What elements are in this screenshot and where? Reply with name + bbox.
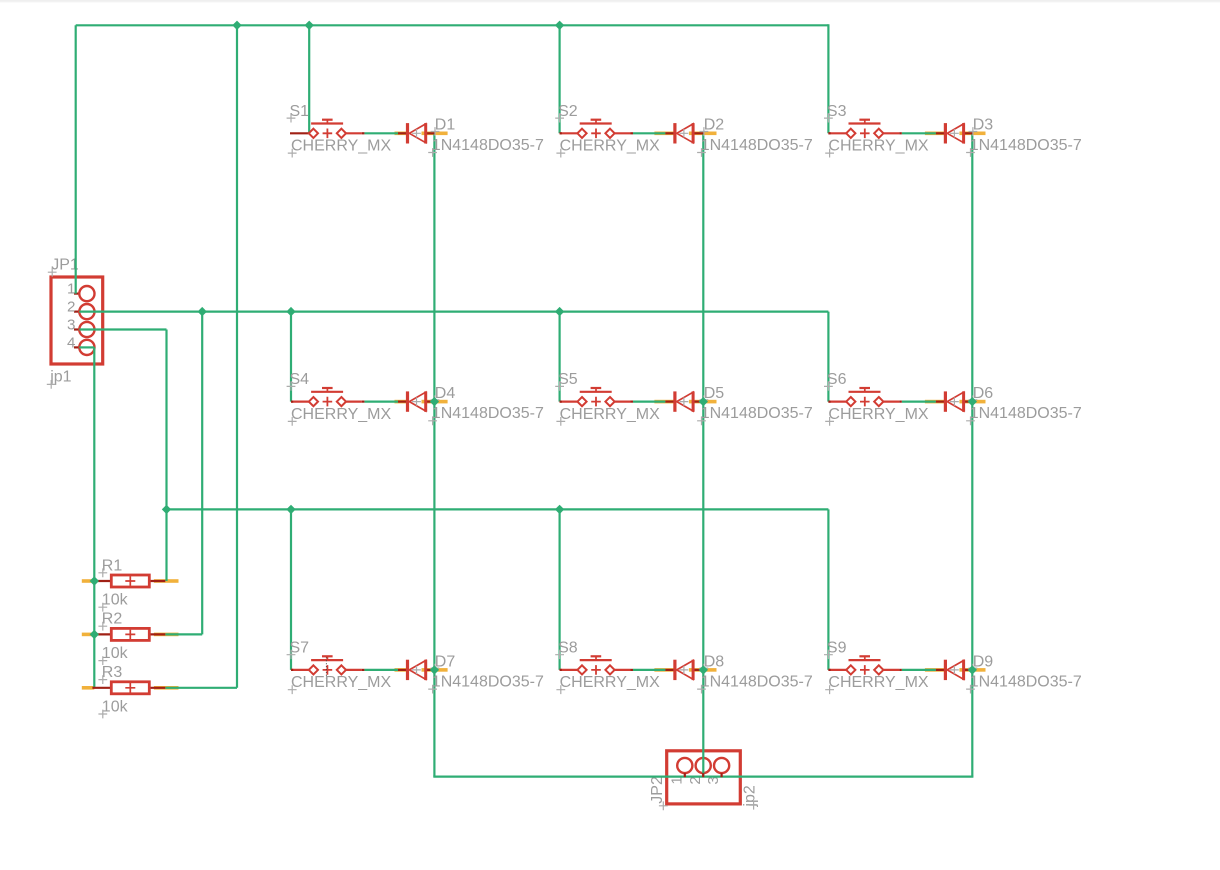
svg-text:CHERRY_MX: CHERRY_MX (828, 406, 929, 423)
contact diamond right (337, 397, 346, 406)
svg-text:jp1: jp1 (49, 369, 71, 386)
diode D9 (1N4148DO35-7) (936, 653, 1082, 693)
svg-text:1N4148DO35-7: 1N4148DO35-7 (701, 137, 813, 154)
cathode bar (406, 391, 409, 411)
wire diode column 3 (971, 133, 973, 776)
switch origin cross (591, 129, 601, 139)
cathode bar (944, 391, 947, 411)
contact diamond left (309, 397, 318, 406)
diode D4 pin stubs (yellow) (395, 400, 408, 404)
resistor R3 (10k) (92, 664, 165, 718)
actuator bar (580, 391, 612, 393)
contact diamond right (874, 129, 883, 138)
svg-text:1N4148DO35-7: 1N4148DO35-7 (432, 137, 544, 154)
junction row3 / S7 (286, 505, 295, 514)
junction R1 left (90, 576, 99, 585)
contact diamond right (874, 665, 883, 674)
cathode bar (673, 123, 676, 143)
wire row3 corner drop to S9 (827, 509, 829, 670)
wire R3 riser (236, 25, 238, 688)
svg-text:10k: 10k (102, 645, 129, 662)
pin 1 stub (828, 401, 846, 403)
anode triangle (677, 392, 693, 411)
diode origin cross (950, 397, 959, 405)
diode origin cross (950, 666, 959, 674)
resistor R1 (10k) (92, 557, 165, 611)
actuator bar (580, 659, 612, 661)
diode D5 pin stubs (yellow) (654, 400, 675, 404)
plunger tee (859, 119, 870, 121)
cathode pin overlay (426, 132, 436, 134)
svg-text:1N4148DO35-7: 1N4148DO35-7 (970, 405, 1082, 422)
cathode pin overlay (964, 132, 974, 134)
pin 1 overlay (92, 633, 111, 635)
JP1 pin 2 circle (79, 304, 94, 319)
anode triangle (677, 661, 693, 680)
wire R2 horizontal (165, 633, 202, 635)
resistor R2 (10k) (92, 611, 165, 665)
svg-text:S4: S4 (290, 371, 310, 388)
wire top bus horizontal (76, 24, 829, 26)
svg-text:S7: S7 (290, 639, 310, 656)
anode triangle (409, 661, 425, 680)
switch origin cross (860, 129, 870, 139)
svg-text:3: 3 (67, 317, 75, 334)
diode D6 pin stubs (yellow) (925, 400, 946, 404)
diode D7 (1N4148DO35-7) (398, 653, 544, 693)
cathode pin overlay (964, 401, 974, 403)
wire JP1 pin3 riser down (165, 330, 167, 510)
anode triangle (409, 392, 425, 411)
actuator bar (311, 122, 343, 124)
junction top bus / S1 (305, 21, 314, 30)
switch S3 (CHERRY_MX) (824, 103, 929, 158)
anode pin overlay (936, 669, 945, 671)
cathode pin overlay (426, 401, 436, 403)
plunger tee (591, 119, 602, 121)
switch origin cross (323, 665, 333, 675)
svg-text:4: 4 (67, 334, 75, 351)
cathode pin overlay (693, 669, 704, 671)
contact diamond right (337, 129, 346, 138)
svg-text:R2: R2 (102, 611, 123, 628)
cathode bar (673, 660, 676, 680)
wire S5 drop (558, 312, 560, 402)
diode origin cross (412, 666, 421, 674)
JP1 pin 1 stub (74, 293, 79, 295)
anode pin overlay (936, 132, 945, 134)
svg-text:1N4148DO35-7: 1N4148DO35-7 (701, 405, 813, 422)
switch origin cross (860, 397, 870, 407)
contact diamond left (309, 129, 318, 138)
cathode bar (944, 123, 947, 143)
junction row3 / S8 (555, 505, 564, 514)
anode triangle (947, 124, 963, 143)
diode D1 (1N4148DO35-7) (398, 117, 544, 157)
wire R1 riser (165, 509, 167, 581)
pin 1 overlay (92, 580, 111, 582)
switch origin cross (323, 129, 333, 139)
wire bottom bus to JP2 (433, 775, 973, 777)
wire S3-D3 link (902, 132, 936, 134)
pin 1 stub (291, 669, 309, 671)
actuator bar (311, 659, 343, 661)
pin 2 stub (883, 401, 899, 403)
JP1 pin 1 circle (79, 286, 94, 301)
contact diamond right (605, 397, 614, 406)
JP2 pin 3 circle (714, 758, 729, 773)
wire S5-D5 link (633, 401, 665, 403)
JP1 pin 4 circle (79, 340, 94, 355)
JP2 body (667, 751, 741, 804)
svg-text:CHERRY_MX: CHERRY_MX (560, 674, 661, 691)
junction D5 output (699, 397, 708, 406)
JP2 pin 1 circle (677, 758, 692, 773)
plunger tee (322, 655, 333, 657)
plunger tee (322, 387, 333, 389)
JP1 pin 4 stub (74, 346, 79, 348)
diode origin cross (680, 129, 689, 137)
pin 1 stub (560, 132, 578, 134)
resistor origin cross (125, 576, 135, 586)
JP2 pin stubs (685, 773, 722, 777)
cathode pin overlay (693, 401, 704, 403)
pin 1 stub (560, 401, 578, 403)
switch origin cross (591, 397, 601, 407)
contact diamond left (846, 397, 855, 406)
svg-text:S6: S6 (827, 371, 847, 388)
diode D8 (1N4148DO35-7) (665, 653, 812, 693)
anode pin overlay (665, 132, 674, 134)
wire R3 horizontal (165, 687, 237, 689)
svg-text:1: 1 (67, 281, 75, 298)
anode triangle (947, 392, 963, 411)
pin 1 stub (560, 669, 578, 671)
junction row2 / S4 (286, 307, 295, 316)
pin 2 stub (614, 132, 630, 134)
anode pin overlay (398, 401, 407, 403)
junction D6 output (968, 397, 977, 406)
anode triangle (947, 661, 963, 680)
wire JP1 pin1 riser (75, 25, 77, 293)
junction R2 left (90, 630, 99, 639)
wire S6-D6 link (902, 401, 936, 403)
cathode pin overlay (964, 669, 974, 671)
junction row2 / R2 (198, 307, 207, 316)
actuator dotted link (325, 657, 327, 680)
wire top bus corner drop to S3 (827, 24, 829, 133)
plunger tee (591, 387, 602, 389)
diode D7 pin stubs (yellow) (395, 668, 408, 672)
pin 2 stub (346, 669, 362, 671)
svg-text:CHERRY_MX: CHERRY_MX (291, 406, 392, 423)
diode D8 pin stubs (yellow) (654, 668, 675, 672)
wire S4-D4 link (364, 401, 398, 403)
diode D2 (1N4148DO35-7) (665, 117, 812, 157)
switch S9 (CHERRY_MX) (824, 639, 929, 694)
junction D8 output (699, 665, 708, 674)
switch origin cross (860, 665, 870, 675)
junction top bus / S2 (555, 21, 564, 30)
svg-text:1N4148DO35-7: 1N4148DO35-7 (432, 405, 544, 422)
svg-text:jp2: jp2 (742, 785, 759, 807)
pin 2 stub (614, 669, 630, 671)
diode D3 pin stubs (yellow) (925, 132, 946, 136)
pin 2 stub (614, 401, 630, 403)
wire row2 corner drop to S6 (827, 312, 829, 402)
switch S8 (CHERRY_MX) (555, 639, 660, 694)
actuator bar (311, 391, 343, 393)
plunger tee (322, 119, 333, 121)
resistor R1 pin stubs (yellow) (82, 579, 95, 583)
wire S1-D1 link (364, 132, 398, 134)
wire S8 drop (558, 509, 560, 670)
svg-text:CHERRY_MX: CHERRY_MX (291, 674, 392, 691)
svg-text:10k: 10k (102, 592, 129, 609)
switch S6 (CHERRY_MX) (824, 371, 929, 426)
contact diamond right (874, 397, 883, 406)
diode D3 (1N4148DO35-7) (936, 117, 1082, 157)
anode triangle (409, 124, 425, 143)
diode origin cross (412, 397, 421, 405)
switch S2 (CHERRY_MX) (555, 103, 660, 158)
switch S4 (CHERRY_MX) (287, 371, 392, 426)
junction D7 output (430, 665, 439, 674)
cathode bar (406, 660, 409, 680)
wire S7 drop (290, 509, 292, 670)
diode D2 pin stubs (yellow) (654, 132, 675, 136)
anode pin overlay (665, 669, 674, 671)
svg-text:JP2: JP2 (649, 776, 666, 804)
pin 2 stub (346, 132, 362, 134)
svg-text:S1: S1 (290, 103, 310, 120)
svg-text:CHERRY_MX: CHERRY_MX (291, 138, 392, 155)
pin 1 overlay (92, 687, 111, 689)
anode triangle (677, 124, 693, 143)
cathode bar (406, 123, 409, 143)
actuator bar (849, 391, 881, 393)
wire row3 bus horizontal (167, 508, 829, 510)
diode origin cross (680, 397, 689, 405)
wire diode column 1 (433, 133, 435, 776)
resistor body (111, 628, 149, 640)
svg-text:R3: R3 (102, 664, 123, 681)
pin 2 overlay (149, 687, 165, 689)
JP1 pin 3 circle (79, 322, 94, 337)
JP2 pin 2 circle (696, 758, 711, 773)
pin 1 stub (290, 132, 309, 134)
svg-text:CHERRY_MX: CHERRY_MX (828, 138, 929, 155)
anode pin overlay (398, 669, 407, 671)
svg-text:CHERRY_MX: CHERRY_MX (560, 138, 661, 155)
JP1 body (51, 277, 103, 364)
switch S1 (CHERRY_MX) (287, 103, 392, 158)
cathode bar (944, 660, 947, 680)
cathode bar (673, 391, 676, 411)
plunger tee (859, 387, 870, 389)
svg-text:S8: S8 (558, 639, 578, 656)
svg-text:S3: S3 (827, 103, 847, 120)
cathode pin overlay (426, 669, 436, 671)
wire JP1 pin4 horizontal (79, 346, 94, 348)
svg-text:S9: S9 (827, 639, 847, 656)
switch S7 (CHERRY_MX) (287, 639, 392, 694)
pin 2 stub (346, 401, 362, 403)
wire JP1 pin3 horizontal (79, 328, 166, 330)
JP1 pin 3 stub (74, 328, 79, 330)
diode origin cross (950, 129, 959, 137)
svg-text:1N4148DO35-7: 1N4148DO35-7 (970, 673, 1082, 690)
plunger tee (859, 655, 870, 657)
pin 2 stub (883, 132, 899, 134)
diode D1 pin stubs (yellow) (395, 132, 408, 136)
diode D4 (1N4148DO35-7) (398, 385, 544, 425)
pin 1 stub (828, 132, 846, 134)
contact diamond right (605, 129, 614, 138)
top border strip (0, 0, 1220, 2)
switch origin cross (591, 665, 601, 675)
wire S8-D8 link (633, 669, 665, 671)
diode D5 (1N4148DO35-7) (665, 385, 812, 425)
resistor R2 pin stubs (yellow) (82, 633, 95, 637)
wire JP1 pin4 drop to resistors (93, 347, 95, 687)
switch origin cross (323, 397, 333, 407)
junction D9 output (968, 665, 977, 674)
junction D4 output (430, 397, 439, 406)
contact diamond left (309, 665, 318, 674)
connector JP1 (47, 256, 103, 388)
anode pin overlay (936, 401, 945, 403)
resistor origin cross (125, 630, 135, 640)
diode origin cross (680, 666, 689, 674)
wire S7-D7 link (364, 669, 398, 671)
wire S1 drop (308, 25, 310, 133)
resistor origin cross (125, 683, 135, 693)
plunger tee (591, 655, 602, 657)
wire S9-D9 link (902, 669, 936, 671)
svg-text:1N4148DO35-7: 1N4148DO35-7 (701, 673, 813, 690)
junction row2 / S5 (555, 307, 564, 316)
connector JP2 (649, 751, 759, 810)
JP1 pin 2 stub (74, 311, 79, 313)
wire row2 bus horizontal (79, 311, 828, 313)
anode pin overlay (665, 401, 674, 403)
resistor body (111, 575, 149, 587)
junction row3 / R1 (162, 505, 171, 514)
pin 2 overlay (149, 580, 165, 582)
svg-text:CHERRY_MX: CHERRY_MX (828, 674, 929, 691)
contact diamond left (577, 129, 586, 138)
contact diamond left (846, 665, 855, 674)
diode D6 (1N4148DO35-7) (936, 385, 1082, 425)
anode pin overlay (398, 132, 407, 134)
pin 2 overlay (149, 633, 165, 635)
contact diamond left (577, 397, 586, 406)
svg-text:2: 2 (67, 299, 75, 316)
wire S4 drop (290, 312, 292, 402)
pin 1 stub (291, 401, 309, 403)
actuator bar (849, 659, 881, 661)
switch S5 (CHERRY_MX) (555, 371, 660, 426)
wire S2 drop (558, 25, 560, 133)
wire S2-D2 link (633, 132, 665, 134)
resistor R3 pin stubs (yellow) (82, 686, 95, 690)
contact diamond left (846, 129, 855, 138)
cathode pin overlay (693, 132, 704, 134)
contact diamond left (577, 665, 586, 674)
svg-text:S2: S2 (558, 103, 578, 120)
svg-text:10k: 10k (102, 698, 129, 715)
wire R2 riser (201, 312, 203, 635)
svg-text:1N4148DO35-7: 1N4148DO35-7 (432, 673, 544, 690)
contact diamond right (605, 665, 614, 674)
diode D9 pin stubs (yellow) (925, 668, 946, 672)
contact diamond right (337, 665, 346, 674)
junction top bus / R3 (232, 21, 241, 30)
wire diode column 2 (702, 133, 704, 776)
svg-text:R1: R1 (102, 557, 123, 574)
pin 1 stub (828, 669, 846, 671)
svg-text:1N4148DO35-7: 1N4148DO35-7 (970, 137, 1082, 154)
svg-text:CHERRY_MX: CHERRY_MX (560, 406, 661, 423)
resistor body (111, 682, 149, 694)
svg-text:S5: S5 (558, 371, 578, 388)
actuator bar (849, 122, 881, 124)
pin 2 stub (883, 669, 899, 671)
actuator bar (580, 122, 612, 124)
diode origin cross (412, 129, 421, 137)
